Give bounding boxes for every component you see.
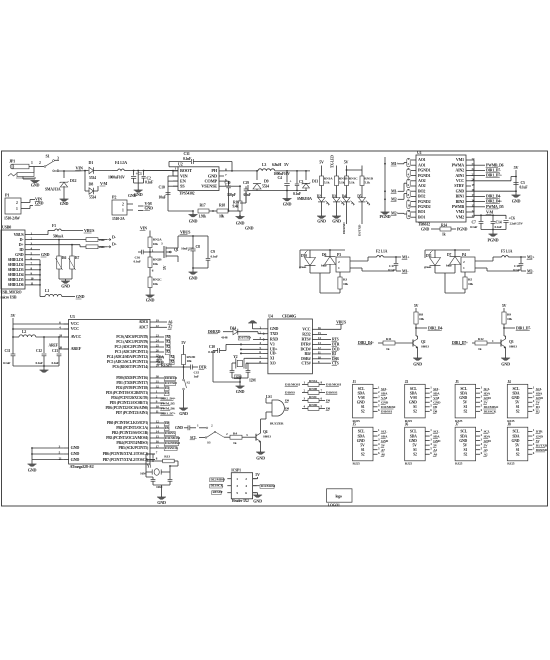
svg-text:LS1: LS1 <box>266 395 272 399</box>
svg-text:blue: blue <box>446 264 452 268</box>
svg-text:0.1uF: 0.1uF <box>3 361 10 365</box>
svg-text:D1/TXD: D1/TXD <box>239 336 251 340</box>
svg-text:GND: GND <box>61 284 70 289</box>
svg-text:GND: GND <box>28 468 37 473</box>
svg-text:J1: J1 <box>353 380 357 384</box>
svg-text:GND: GND <box>317 219 326 224</box>
svg-text:PWM_D6: PWM_D6 <box>161 406 175 410</box>
svg-text:J6: J6 <box>405 423 409 427</box>
svg-text:U3: U3 <box>70 314 75 319</box>
svg-text:5.1k: 5.1k <box>364 180 370 184</box>
svg-text:GND: GND <box>128 194 136 198</box>
svg-text:SDA: SDA <box>433 391 440 395</box>
svg-text:SDA: SDA <box>460 434 467 438</box>
svg-text:SCL: SCL <box>358 430 365 434</box>
svg-text:Header 3X2: Header 3X2 <box>232 499 249 503</box>
svg-text:10k: 10k <box>153 262 158 266</box>
svg-text:5V: 5V <box>414 304 419 308</box>
svg-text:SCL: SCL <box>358 387 365 391</box>
svg-text:GND: GND <box>357 439 365 443</box>
svg-text:DIR2_D4+: DIR2_D4+ <box>358 341 374 345</box>
svg-text:GND: GND <box>409 439 417 443</box>
svg-text:SDA: SDA <box>484 391 491 395</box>
svg-text:5.1k: 5.1k <box>349 180 355 184</box>
svg-text:DIR1_D7+: DIR1_D7+ <box>486 174 502 178</box>
svg-text:D8: D8 <box>433 410 437 414</box>
svg-text:10k: 10k <box>153 282 158 286</box>
svg-text:TPS54302: TPS54302 <box>179 192 195 196</box>
svg-text:R18: R18 <box>219 204 225 208</box>
svg-text:1510-2AW: 1510-2AW <box>4 217 20 221</box>
svg-text:SS: SS <box>180 184 185 189</box>
svg-text:D13/SCK: D13/SCK <box>165 446 178 450</box>
svg-text:D5: D5 <box>357 195 361 199</box>
svg-text:D0/RXD: D0/RXD <box>208 330 221 334</box>
svg-text:5V: 5V <box>463 443 468 447</box>
svg-text:1.91k: 1.91k <box>199 215 208 219</box>
svg-text:DIR2_D4+: DIR2_D4+ <box>161 396 176 400</box>
svg-text:DIR1_D7+: DIR1_D7+ <box>452 341 468 345</box>
svg-text:SDA: SDA <box>484 434 491 438</box>
svg-text:VSENSE: VSENSE <box>201 184 217 189</box>
svg-text:M2-: M2- <box>527 270 534 274</box>
svg-text:DIR1_D7+: DIR1_D7+ <box>161 411 176 415</box>
svg-text:SDA: SDA <box>358 434 365 438</box>
svg-text:12M: 12M <box>235 374 242 378</box>
svg-text:S8013: S8013 <box>509 345 517 349</box>
svg-text:R13: R13 <box>164 455 170 459</box>
svg-text:C9: C9 <box>211 250 216 254</box>
svg-text:0.1uF: 0.1uF <box>470 225 477 229</box>
svg-text:D11/MOSI: D11/MOSI <box>165 436 181 440</box>
svg-text:GND: GND <box>76 294 85 299</box>
svg-text:12M: 12M <box>249 379 256 383</box>
svg-text:S1: S1 <box>361 405 365 409</box>
svg-text:SHIELD6: SHIELD6 <box>8 282 24 287</box>
svg-text:A4: A4 <box>170 355 174 359</box>
svg-text:C7: C7 <box>472 221 477 225</box>
svg-text:GND: GND <box>536 434 544 438</box>
svg-text:R12: R12 <box>478 337 484 341</box>
svg-text:D4: D4 <box>342 195 346 199</box>
svg-text:SDA: SDA <box>358 391 365 395</box>
svg-text:R8: R8 <box>419 313 423 317</box>
svg-text:S8013: S8013 <box>263 435 271 439</box>
svg-text:D0/RXD: D0/RXD <box>165 376 177 380</box>
svg-text:BUZZER: BUZZER <box>270 422 284 426</box>
svg-text:PGND: PGND <box>488 238 499 243</box>
svg-text:S1: S1 <box>464 405 468 409</box>
svg-text:PD4 (PCINT20/XCK/T0): PD4 (PCINT20/XCK/T0) <box>111 396 149 400</box>
svg-text:PB3 (PCINT3/OC2A/MOSI): PB3 (PCINT3/OC2A/MOSI) <box>106 436 149 440</box>
svg-text:PC4 (ADC4/SDA/PCINT12): PC4 (ADC4/SDA/PCINT12) <box>107 355 149 359</box>
svg-text:500mA: 500mA <box>53 235 64 239</box>
svg-text:S2: S2 <box>516 410 520 414</box>
svg-text:GND: GND <box>41 252 50 257</box>
svg-text:120pF: 120pF <box>227 193 237 197</box>
svg-text:A3: A3 <box>484 448 488 452</box>
svg-text:GND: GND <box>71 445 80 450</box>
svg-text:A0: A0 <box>433 452 437 456</box>
svg-text:VBUS: VBUS <box>336 319 347 324</box>
svg-text:GND: GND <box>179 411 188 416</box>
svg-text:F1: F1 <box>52 224 56 228</box>
svg-text:AREF: AREF <box>71 346 82 351</box>
svg-text:+: + <box>290 180 292 184</box>
svg-text:5V: 5V <box>502 304 507 308</box>
svg-text:0.1uF: 0.1uF <box>36 361 43 365</box>
svg-text:CTS#: CTS# <box>301 360 310 365</box>
svg-text:RJ25: RJ25 <box>455 462 463 466</box>
svg-text:GND: GND <box>236 389 245 394</box>
svg-text:S2: S2 <box>413 410 417 414</box>
svg-text:C10: C10 <box>209 345 215 349</box>
svg-text:5V: 5V <box>255 473 260 477</box>
svg-text:GND: GND <box>433 400 441 404</box>
svg-text:SCL: SCL <box>433 430 440 434</box>
svg-text:C4: C4 <box>278 176 283 180</box>
svg-text:5V: 5V <box>515 400 520 404</box>
svg-text:LOGO1: LOGO1 <box>328 503 340 507</box>
svg-text:GND: GND <box>484 439 492 443</box>
svg-text:GND: GND <box>189 276 198 281</box>
svg-text:DSR: DSR <box>332 357 339 361</box>
svg-text:PB6 (PCINT6/XTAL1/TOSC1): PB6 (PCINT6/XTAL1/TOSC1) <box>103 452 149 456</box>
svg-text:SCL: SCL <box>460 430 467 434</box>
svg-text:DCD: DCD <box>332 348 340 352</box>
svg-text:GND: GND <box>189 219 198 224</box>
svg-text:micro USB: micro USB <box>1 295 18 299</box>
svg-text:SCL: SCL <box>433 387 440 391</box>
svg-text:GND: GND <box>484 396 492 400</box>
svg-text:S2: S2 <box>361 410 365 414</box>
svg-text:D11/MOSI: D11/MOSI <box>261 484 276 488</box>
svg-text:D0/RXD: D0/RXD <box>536 448 548 452</box>
svg-text:D11/MOSI: D11/MOSI <box>381 405 396 409</box>
svg-text:SDA: SDA <box>157 355 164 359</box>
svg-text:C30: C30 <box>225 181 231 185</box>
svg-text:S1: S1 <box>516 448 520 452</box>
svg-text:A2: A2 <box>484 452 488 456</box>
svg-text:V-M: V-M <box>100 181 108 186</box>
svg-text:GND: GND <box>421 228 429 232</box>
svg-text:RESET: RESET <box>213 490 224 494</box>
svg-text:SDA: SDA <box>460 391 467 395</box>
svg-text:D13: D13 <box>312 180 318 184</box>
svg-text:D0/RXD: D0/RXD <box>342 222 346 234</box>
svg-text:1k: 1k <box>478 347 482 351</box>
svg-text:D10/SS: D10/SS <box>285 391 295 395</box>
svg-text:SDA: SDA <box>512 391 519 395</box>
svg-text:PB1 (PCINT1/OC1A): PB1 (PCINT1/OC1A) <box>116 426 149 430</box>
svg-text:DTR: DTR <box>332 343 340 347</box>
svg-text:PD1 (TXD/PCINT17): PD1 (TXD/PCINT17) <box>116 381 149 385</box>
svg-text:F4 1.5A: F4 1.5A <box>115 160 127 165</box>
svg-text:5V: 5V <box>515 443 520 447</box>
svg-text:J7: J7 <box>455 423 459 427</box>
svg-text:VIN: VIN <box>140 226 147 231</box>
svg-text:D12/MISO: D12/MISO <box>165 441 180 445</box>
svg-text:0.1uF: 0.1uF <box>52 361 59 365</box>
svg-text:1510-2A: 1510-2A <box>112 217 125 221</box>
svg-text:M1+: M1+ <box>402 256 410 260</box>
svg-text:GND: GND <box>71 451 80 456</box>
svg-text:S2: S2 <box>361 452 365 456</box>
svg-text:S1: S1 <box>516 405 520 409</box>
svg-text:S2: S2 <box>516 452 520 456</box>
svg-text:PD0 (RXD/PCINT16): PD0 (RXD/PCINT16) <box>116 376 149 380</box>
svg-text:5V: 5V <box>463 400 468 404</box>
svg-text:5V: 5V <box>11 313 16 318</box>
svg-text:P4: P4 <box>462 253 466 257</box>
svg-text:Q3: Q3 <box>509 340 514 344</box>
svg-text:SDA: SDA <box>512 434 519 438</box>
svg-text:5V: 5V <box>284 162 289 167</box>
svg-text:S1: S1 <box>46 154 50 159</box>
svg-text:A7: A7 <box>381 448 385 452</box>
svg-text:BO1: BO1 <box>418 214 425 219</box>
svg-text:S1: S1 <box>413 448 417 452</box>
svg-text:D2: D2 <box>317 195 321 199</box>
svg-text:R9: R9 <box>507 313 511 317</box>
svg-text:A7: A7 <box>168 326 173 330</box>
svg-text:D12/MISO: D12/MISO <box>211 477 226 481</box>
svg-text:5V: 5V <box>344 160 349 165</box>
svg-text:5V: 5V <box>163 265 167 270</box>
svg-text:+C1: +C1 <box>136 172 142 176</box>
svg-text:1uF: 1uF <box>194 375 199 379</box>
svg-text:A1: A1 <box>166 340 170 344</box>
svg-text:A6: A6 <box>381 452 385 456</box>
svg-text:PWMA_D5: PWMA_D5 <box>486 205 504 209</box>
svg-text:0.1uF: 0.1uF <box>211 255 218 259</box>
svg-text:GND: GND <box>433 439 441 443</box>
svg-text:0.1nF: 0.1nF <box>145 181 154 185</box>
svg-text:D10/SS1: D10/SS1 <box>326 391 338 395</box>
svg-text:SMAJ13A: SMAJ13A <box>45 188 61 192</box>
svg-text:A2: A2 <box>166 345 170 349</box>
svg-text:GND: GND <box>236 221 245 226</box>
svg-text:SCL: SCL <box>410 430 417 434</box>
svg-text:10uF: 10uF <box>159 196 167 200</box>
svg-text:SDA: SDA <box>381 434 388 438</box>
svg-text:SCL: SCL <box>484 387 491 391</box>
svg-text:SCL: SCL <box>381 430 388 434</box>
svg-text:R5: R5 <box>468 278 472 282</box>
svg-text:GND: GND <box>145 206 154 211</box>
svg-text:S2: S2 <box>187 381 191 385</box>
svg-text:C14: C14 <box>496 221 502 225</box>
svg-text:C12: C12 <box>36 349 42 353</box>
svg-text:D9: D9 <box>433 405 437 409</box>
svg-text:J4: J4 <box>507 380 511 384</box>
svg-text:5.1k: 5.1k <box>339 180 345 184</box>
svg-text:GND: GND <box>459 439 467 443</box>
svg-text:GND: GND <box>31 183 40 188</box>
svg-text:PD7 (PCINT23/AIN1): PD7 (PCINT23/AIN1) <box>116 411 149 415</box>
svg-text:PC2 (ADC2/PCINT10): PC2 (ADC2/PCINT10) <box>115 345 149 349</box>
svg-text:GND: GND <box>512 199 521 204</box>
svg-text:D1/TXD: D1/TXD <box>358 224 362 236</box>
svg-text:5534: 5534 <box>89 176 96 180</box>
svg-text:RJ25: RJ25 <box>353 462 361 466</box>
svg-text:R7: R7 <box>75 256 79 260</box>
svg-text:PC6 (RESET/PCINT14): PC6 (RESET/PCINT14) <box>112 365 149 369</box>
svg-text:D12: D12 <box>70 178 77 183</box>
svg-text:V-M: V-M <box>433 396 440 400</box>
svg-text:USB_MICRO: USB_MICRO <box>1 291 22 295</box>
svg-text:GND: GND <box>175 426 183 430</box>
svg-text:DIR2_D4+: DIR2_D4+ <box>486 200 502 204</box>
svg-text:D11/MOSI: D11/MOSI <box>326 383 342 387</box>
svg-text:AREF: AREF <box>49 344 59 348</box>
svg-text:PWM_D5: PWM_D5 <box>161 401 175 405</box>
svg-text:U4: U4 <box>268 314 273 319</box>
svg-text:R3: R3 <box>343 278 347 282</box>
svg-text:Q1: Q1 <box>174 248 179 252</box>
svg-text:RN3C: RN3C <box>309 395 318 399</box>
svg-text:D13/SCK: D13/SCK <box>211 484 224 488</box>
svg-text:SDA: SDA <box>536 391 543 395</box>
svg-text:D13/SCK: D13/SCK <box>484 410 497 414</box>
svg-text:F2 1.1A: F2 1.1A <box>376 250 388 254</box>
svg-text:GND: GND <box>413 362 422 367</box>
svg-text:Q2: Q2 <box>421 340 426 344</box>
svg-text:10k: 10k <box>187 359 192 363</box>
svg-text:RJ25: RJ25 <box>405 462 413 466</box>
svg-text:D3: D3 <box>536 405 540 409</box>
svg-text:S2: S2 <box>413 452 417 456</box>
svg-text:0.1nF: 0.1nF <box>183 157 192 161</box>
svg-text:Q4: Q4 <box>263 430 268 434</box>
svg-text:GND: GND <box>511 439 519 443</box>
svg-text:D1: D1 <box>89 160 94 165</box>
svg-text:5V: 5V <box>412 443 417 447</box>
svg-text:D9: D9 <box>165 426 169 430</box>
svg-text:SDA: SDA <box>381 391 388 395</box>
svg-text:J8: J8 <box>507 423 511 427</box>
svg-text:ICSP1: ICSP1 <box>231 469 241 473</box>
svg-text:GND: GND <box>381 439 389 443</box>
svg-text:DTR: DTR <box>199 365 207 369</box>
svg-text:GND: GND <box>357 400 365 404</box>
svg-text:C13: C13 <box>52 349 58 353</box>
svg-text:S3: S3 <box>207 441 211 445</box>
svg-text:A6: A6 <box>168 320 173 324</box>
svg-text:5V: 5V <box>319 160 324 165</box>
svg-text:DIR1_D7-: DIR1_D7- <box>516 326 532 330</box>
svg-text:DTR: DTR <box>536 430 543 434</box>
svg-text:U2: U2 <box>178 162 183 167</box>
svg-text:SDA: SDA <box>410 391 417 395</box>
svg-text:J3: J3 <box>455 380 459 384</box>
svg-text:DIR2_D4-: DIR2_D4- <box>428 326 444 330</box>
svg-text:M2-: M2- <box>391 197 398 202</box>
svg-text:D9: D9 <box>285 399 289 403</box>
svg-text:0.1uF: 0.1uF <box>520 186 529 190</box>
svg-text:10k: 10k <box>419 317 424 321</box>
svg-text:PC0 (ADC0/PCINT8): PC0 (ADC0/PCINT8) <box>116 335 149 339</box>
svg-text:JP1: JP1 <box>9 159 15 164</box>
svg-text:R11: R11 <box>386 337 392 341</box>
svg-text:0.1uF: 0.1uF <box>293 192 302 196</box>
svg-text:D8: D8 <box>89 182 94 187</box>
svg-text:DIR1_D7-: DIR1_D7- <box>486 169 502 173</box>
svg-text:P1: P1 <box>5 193 9 198</box>
svg-text:V-M: V-M <box>358 396 365 400</box>
svg-text:VBUS: VBUS <box>180 230 191 235</box>
svg-text:10k: 10k <box>343 282 348 286</box>
svg-text:L3: L3 <box>262 163 266 167</box>
svg-text:P2: P2 <box>112 195 116 200</box>
svg-text:V-M: V-M <box>381 396 388 400</box>
svg-text:ATmega328-AU: ATmega328-AU <box>70 465 95 469</box>
svg-text:logo: logo <box>336 494 342 498</box>
svg-text:DIR2_D4-: DIR2_D4- <box>486 195 502 199</box>
svg-text:S2: S2 <box>464 452 468 456</box>
svg-text:VIN: VIN <box>76 166 84 171</box>
svg-text:D3: D3 <box>332 195 336 199</box>
svg-text:P3: P3 <box>337 253 341 257</box>
svg-text:PD6 (PCINT22/OC0A/AIN0): PD6 (PCINT22/OC0A/AIN0) <box>105 406 148 410</box>
svg-text:6.8uH: 6.8uH <box>272 163 281 167</box>
svg-text:C29: C29 <box>243 181 249 185</box>
svg-text:SCL: SCL <box>484 430 491 434</box>
svg-text:GND: GND <box>459 396 467 400</box>
svg-text:PD3 (PCINT19/OC2B/INT1): PD3 (PCINT19/OC2B/INT1) <box>106 391 149 395</box>
svg-text:AVCC: AVCC <box>71 334 82 339</box>
svg-text:GND: GND <box>157 500 166 505</box>
svg-text:Y1: Y1 <box>147 465 151 469</box>
svg-text:GND: GND <box>381 400 389 404</box>
svg-text:5V: 5V <box>181 341 186 345</box>
svg-text:S1: S1 <box>464 448 468 452</box>
svg-text:A1: A1 <box>433 448 437 452</box>
svg-text:0.1uF: 0.1uF <box>495 225 502 229</box>
svg-text:5V: 5V <box>514 165 519 170</box>
svg-text:SCL: SCL <box>536 387 543 391</box>
svg-text:SCL: SCL <box>381 387 388 391</box>
svg-text:D11/MOSI: D11/MOSI <box>285 383 301 387</box>
svg-text:VBUS: VBUS <box>84 228 95 233</box>
svg-text:VCC: VCC <box>71 326 80 331</box>
svg-text:68nF: 68nF <box>244 193 252 197</box>
svg-text:RN3B: RN3B <box>309 387 318 391</box>
svg-text:SCL: SCL <box>513 387 520 391</box>
svg-text:10k: 10k <box>468 282 473 286</box>
svg-text:TXD: TXD <box>270 331 278 336</box>
svg-text:PC1 (ADC1/PCINT9): PC1 (ADC1/PCINT9) <box>116 340 149 344</box>
svg-text:S8013: S8013 <box>421 345 429 349</box>
svg-text:0.1uF: 0.1uF <box>134 260 141 264</box>
svg-text:A3: A3 <box>166 350 170 354</box>
svg-text:1k: 1k <box>386 347 390 351</box>
svg-text:+C6: +C6 <box>509 217 515 221</box>
svg-text:PC5 (ADC5/SCL/PCINT13): PC5 (ADC5/SCL/PCINT13) <box>107 360 149 364</box>
svg-text:GND: GND <box>245 226 254 231</box>
svg-text:SMBJ10A: SMBJ10A <box>297 197 312 201</box>
svg-text:D9: D9 <box>326 399 330 403</box>
svg-text:VM2: VM2 <box>456 214 464 219</box>
svg-text:5534: 5534 <box>89 196 96 200</box>
svg-text:SDA: SDA <box>410 434 417 438</box>
svg-text:R6: R6 <box>62 256 66 260</box>
svg-text:D8: D8 <box>165 421 169 425</box>
svg-text:RN3D: RN3D <box>309 403 318 407</box>
svg-text:D2: D2 <box>536 410 540 414</box>
svg-text:D8: D8 <box>285 407 289 411</box>
svg-text:D10/SS: D10/SS <box>165 431 175 435</box>
